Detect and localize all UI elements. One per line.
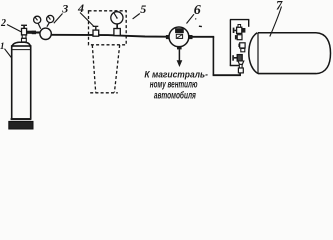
svg-text:К магистраль-: К магистраль- bbox=[144, 70, 208, 80]
svg-text:автомобиля: автомобиля bbox=[154, 91, 196, 102]
svg-text:4: 4 bbox=[77, 1, 84, 15]
svg-text:5: 5 bbox=[140, 2, 146, 16]
svg-text:2: 2 bbox=[0, 18, 6, 29]
svg-text:6: 6 bbox=[194, 3, 201, 18]
svg-text:3: 3 bbox=[61, 2, 68, 16]
svg-text:7: 7 bbox=[276, 0, 283, 13]
svg-text:ному вентилю: ному вентилю bbox=[150, 80, 198, 91]
svg-text:1: 1 bbox=[0, 41, 5, 51]
